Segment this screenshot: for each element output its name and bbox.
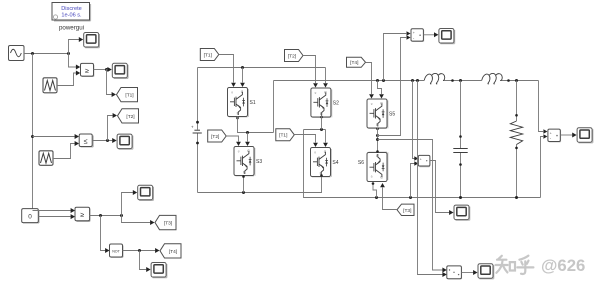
node rail S5 tap [376, 79, 379, 82]
from tag T2 mid [208, 130, 227, 142]
node S6 emitter stub [376, 150, 379, 153]
IGBT S3 [234, 147, 255, 176]
node capacitor bottom port [459, 163, 462, 166]
svg-text:NOT: NOT [112, 249, 120, 253]
svg-text:[T1]: [T1] [125, 93, 133, 99]
wire T2 to S3 gate [226, 136, 238, 142]
svg-text:≥: ≥ [85, 68, 89, 75]
node coil1 end stub [451, 79, 454, 82]
wire relational3 output [90, 215, 122, 217]
node bottom rail VI tap [409, 196, 412, 199]
wire top DC bus [198, 67, 326, 69]
from tag T4 [347, 57, 366, 67]
scope Scope3 [117, 134, 133, 149]
wire DC minus rail [198, 176, 322, 193]
wire rail to RMS input 2 [418, 81, 443, 275]
node S2 emitter stub [320, 116, 323, 119]
wire S3 emitter down [243, 176, 245, 193]
svg-text:≤: ≤ [84, 138, 88, 145]
node DC source bottom port [196, 142, 199, 145]
inductor L1 [424, 73, 445, 83]
from tag T1 top [200, 49, 219, 61]
node S1 collector tap [241, 66, 244, 69]
logical operator NOT [110, 244, 124, 257]
svg-text:powergui: powergui [59, 25, 84, 32]
node resistor top port [515, 114, 518, 117]
wire T1 to S1 gate [219, 55, 234, 83]
node capacitor bottom rail junction [459, 196, 462, 199]
node capacitor top port [459, 135, 462, 138]
VI measurement block near S6 [418, 155, 430, 166]
node S5 emitter node tap2 [376, 138, 379, 141]
wire VI block to mid scope [430, 161, 449, 213]
wire S5 emitter to S6 emitter [377, 128, 379, 152]
DC voltage source [191, 68, 202, 193]
svg-text:S3: S3 [256, 159, 262, 165]
constant 0 block [22, 209, 39, 223]
wire V1 to scope [423, 34, 434, 36]
node relational1 junction [105, 68, 108, 71]
node cap rail tap [459, 79, 462, 82]
node resistor rail tap [515, 79, 518, 82]
wire to scope4 [122, 193, 133, 216]
svg-text:[T2]: [T2] [211, 134, 219, 140]
wire leg A node to S3 collector [247, 133, 249, 142]
IGBT S5 [367, 99, 388, 128]
wire to scope5 [140, 251, 147, 270]
from tag T2 top [285, 50, 304, 62]
svg-text:S5: S5 [389, 112, 395, 118]
relational operator >= 1 [81, 63, 94, 76]
from tag T3 mirrored [397, 204, 414, 215]
wire RMS to bottom scope [461, 272, 473, 274]
goto tag T3 [155, 215, 176, 229]
scope Scope6 top right [439, 29, 455, 44]
node coil2 end stub [507, 79, 510, 82]
relational operator >= 2 [75, 207, 90, 221]
wire T3 to S6 gate [383, 188, 397, 210]
wire S6 collector to bottom rail [373, 184, 377, 198]
IGBT S6 flipped [367, 152, 388, 181]
wire rail end to VM2 plus [539, 81, 544, 132]
svg-text:Discrete: Discrete [61, 6, 82, 12]
wire rail to S5 collector [378, 81, 382, 95]
wire to NOT block [101, 216, 106, 251]
node sine junction 2 [67, 52, 70, 55]
wire leg B to S4 collector [325, 130, 327, 143]
svg-text:[T4]: [T4] [169, 249, 177, 255]
node S3 emitter rail junction [242, 191, 245, 194]
wire main vertical to relational3 [33, 210, 71, 212]
node NOT junction [138, 249, 141, 252]
wire rail to voltage measurement plus [384, 34, 407, 81]
triangle wave source 1 [43, 78, 57, 93]
IGBT S2 [311, 88, 332, 117]
node relational3 junction B [120, 214, 123, 217]
wire sine output [24, 53, 69, 55]
scope Scope8 bottom right [478, 264, 494, 279]
scope Scope9 far right [577, 128, 593, 143]
svg-text:[T3]: [T3] [403, 208, 411, 214]
node resistor bottom rail junction [515, 196, 518, 199]
wire relational2 output [92, 140, 112, 142]
wire leg B riser to load bottom rail [304, 130, 541, 198]
sine wave source [9, 46, 25, 61]
capacitor branch [453, 81, 467, 198]
node S5 emitter node tap1 [376, 134, 379, 137]
node S3 collector tap [246, 131, 249, 134]
wire T2 to S2 gate [303, 56, 316, 84]
wire T4 to S5 gate [366, 63, 372, 95]
svg-text:[T2]: [T2] [288, 53, 296, 59]
svg-text:S2: S2 [333, 101, 339, 107]
wire relational1 output [94, 69, 107, 71]
wire S2 emitter down [321, 116, 323, 130]
wire sine to relational2 [33, 136, 75, 138]
wire sine to relational1 [69, 54, 77, 68]
node DC source top port [196, 121, 199, 124]
svg-text:[T4]: [T4] [350, 60, 358, 66]
wire to goto T3 [122, 216, 151, 223]
wire rail to VI measurement plus [413, 81, 415, 159]
node relational2 junction [106, 139, 109, 142]
wire to goto T2 [108, 116, 113, 141]
node S2 emitter junction [320, 128, 323, 131]
node S6 collector stub [372, 182, 375, 185]
wire S5 node to RMS input 1 [378, 140, 443, 271]
wire S5 emitter node to voltage measurement minus [378, 38, 407, 136]
wire leg A riser to output rail [273, 81, 275, 133]
wire V2 to right scope [560, 134, 572, 136]
wire bottom rail to VI measurement minus [411, 164, 415, 198]
wire S1 emitter to leg A node [238, 117, 274, 133]
goto tag T4 [160, 244, 181, 258]
wire bus to S2 collector [325, 68, 327, 84]
relational operator <= [79, 134, 93, 147]
wire T1 to S4 gate [294, 135, 315, 143]
triangle wave source 2 [39, 151, 53, 166]
svg-text:S4: S4 [332, 160, 338, 166]
wire to goto T1 [107, 70, 112, 95]
wire bottom rail end to VM2 minus [541, 137, 544, 198]
node S3 emitter stub [242, 175, 245, 178]
wire NOT output [123, 250, 156, 252]
node S6 collector rail junction [375, 196, 378, 199]
node sine junction 1 [31, 52, 34, 55]
svg-text:≥: ≥ [80, 212, 84, 219]
goto tag T1 [117, 88, 138, 102]
node S5 emitter stub [376, 127, 379, 130]
voltage measurement block V2 [548, 129, 561, 142]
svg-text:[T1]: [T1] [279, 133, 287, 139]
svg-text:[T3]: [T3] [164, 221, 172, 227]
node rail current tap [411, 79, 414, 82]
watermark zhihu [496, 256, 534, 274]
powergui block [52, 3, 91, 21]
svg-text:@626: @626 [541, 256, 585, 275]
svg-text:[T1]: [T1] [204, 52, 212, 58]
from tag T1 mid [276, 129, 295, 141]
node rail VM1 tap [382, 79, 385, 82]
svg-text:+: + [191, 125, 194, 130]
svg-text:[T2]: [T2] [126, 114, 134, 120]
goto tag T2 [118, 109, 139, 123]
scope Scope2 [112, 63, 128, 78]
node S4 emitter stub [320, 174, 323, 177]
scope Scope4 [138, 185, 154, 200]
scope Scope7 mid right [454, 205, 470, 220]
RMS measurement block [447, 266, 462, 279]
svg-text:S1: S1 [250, 100, 256, 106]
wire to scope1 [69, 40, 80, 54]
wire constant to relational3 [38, 216, 70, 218]
node S1 emitter stub [236, 117, 239, 120]
wire main vertical from sine [32, 54, 34, 211]
wire triangle1 to relational1 [57, 73, 76, 86]
wire bus to S1 collector [242, 68, 244, 83]
voltage measurement block V1 [411, 29, 424, 42]
wire output rail [274, 80, 539, 82]
node resistor bottom port [515, 147, 518, 150]
wire leg B node [304, 129, 326, 131]
node sine tap for <= [31, 135, 34, 138]
svg-text:S6: S6 [358, 160, 364, 166]
wire triangle2 to relational2 [53, 144, 75, 159]
IGBT S1 [228, 88, 249, 117]
node relational3 junction A [99, 214, 102, 217]
svg-text:+: + [420, 158, 422, 162]
scope Scope1 [84, 33, 100, 48]
scope Scope5 [151, 263, 167, 278]
IGBT S4 [311, 148, 332, 177]
inductor L2 [482, 73, 503, 83]
svg-text:0: 0 [28, 213, 32, 220]
wire to scope2 [107, 69, 108, 71]
node rail tap to RMS [416, 79, 419, 82]
svg-text:1e-06 s.: 1e-06 s. [61, 12, 82, 18]
resistor load branch [510, 81, 522, 198]
